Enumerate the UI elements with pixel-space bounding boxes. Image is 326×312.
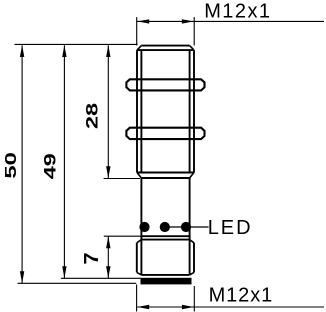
barrel top chamfer left xyxy=(137,46,141,51)
top extension line xyxy=(15,43,138,45)
svg-text:50: 50 xyxy=(3,152,20,178)
top M12 right extension xyxy=(193,17,195,45)
svg-text:M12x1: M12x1 xyxy=(204,1,271,23)
arrow 50 top xyxy=(20,45,24,57)
LED leader wire xyxy=(165,226,209,228)
connector top chamfer left xyxy=(137,240,142,243)
LED dot left xyxy=(139,222,149,232)
dim 28 line xyxy=(107,45,109,178)
svg-text:M12x1: M12x1 xyxy=(209,284,274,306)
barrel chamfer line xyxy=(137,49,194,51)
svg-text:LED: LED xyxy=(208,217,253,239)
barrel outer left wire xyxy=(136,50,138,172)
top M12 dim + shelf line xyxy=(137,20,324,22)
arrow bottom M12 left xyxy=(137,305,149,309)
connector bottom chamfer left xyxy=(137,272,142,275)
connector bottom edge xyxy=(141,274,189,276)
arrow 7 top xyxy=(106,236,110,248)
dim 28 bottom extension xyxy=(104,178,140,180)
arrow 7 bottom xyxy=(106,266,110,278)
connector bottom chamfer right xyxy=(190,272,194,275)
barrel outer right wire xyxy=(193,50,195,172)
arrow 28 top xyxy=(106,45,110,57)
arrow top M12 left xyxy=(137,19,149,23)
sensing face band xyxy=(141,278,192,285)
connector top chamfer right xyxy=(190,240,194,243)
arrow bottom M12 right xyxy=(182,305,194,309)
arrow 49 top xyxy=(62,45,66,57)
dim 50 line xyxy=(21,45,23,283)
dim 49 line xyxy=(63,45,65,278)
svg-text:28: 28 xyxy=(84,103,102,129)
arrow top M12 right xyxy=(182,19,194,23)
nut 2 xyxy=(126,128,204,139)
nut 1 xyxy=(126,79,204,90)
dim 50 bottom extension xyxy=(18,282,137,284)
connector inner right wire xyxy=(189,240,191,275)
connector outer left wire xyxy=(136,243,138,273)
dim 7 top extension xyxy=(104,235,142,237)
housing left wire xyxy=(140,178,142,240)
housing seam line xyxy=(141,235,189,237)
bottom M12 right extension xyxy=(193,286,195,312)
LED dot right xyxy=(181,222,191,232)
dim 49 bottom extension xyxy=(61,277,141,279)
thread relief line xyxy=(137,172,194,174)
arrow 49 bottom xyxy=(62,266,66,278)
arrow 28 bottom xyxy=(106,166,110,178)
dim 7 line xyxy=(107,236,109,278)
thread inner left wire xyxy=(140,50,142,172)
LED dot middle xyxy=(160,222,170,232)
svg-text:7: 7 xyxy=(81,252,103,264)
thread relief chamfer left xyxy=(137,173,141,179)
thread inner right wire xyxy=(189,50,191,172)
svg-text:49: 49 xyxy=(42,153,60,179)
housing right wire xyxy=(189,178,191,240)
bottom M12 left extension xyxy=(136,285,138,312)
barrel top chamfer right xyxy=(190,46,194,51)
arrow 50 bottom xyxy=(20,271,24,283)
housing top line xyxy=(141,177,189,179)
barrel top edge xyxy=(141,45,189,47)
thread relief chamfer right xyxy=(190,173,194,179)
top M12 left extension xyxy=(136,17,138,45)
connector top edge xyxy=(141,239,189,241)
connector inner left wire xyxy=(140,240,142,275)
connector outer right wire xyxy=(193,243,195,273)
bottom M12 dim + shelf line xyxy=(137,306,324,308)
